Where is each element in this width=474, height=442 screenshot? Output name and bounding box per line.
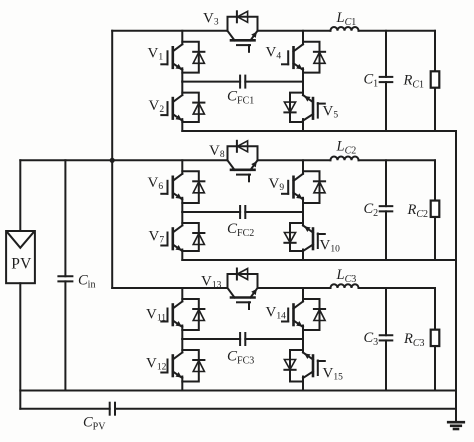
label V3 [203,11,219,28]
label V8 [209,143,225,160]
wire: cell 2 top rail middle segment [258,159,331,161]
IGBT V14 with antiparallel diode [282,288,325,339]
wire: cell 1 top rail right segment [359,30,436,32]
label V15 [323,366,344,383]
IGBT V5 with antiparallel diode (mirrored) [284,82,324,131]
label V14 [266,305,287,322]
inductor L_C3 [331,267,359,288]
label V2 [149,98,165,115]
node: junction dot on left bus at PV rail [110,158,115,163]
IGBT V11 with antiparallel diode [161,288,204,339]
inductor L_C2 [331,139,359,161]
label V13 [201,274,222,291]
wire: right output bus vertical [455,131,457,409]
label V10 [320,238,341,255]
IGBT V2 with antiparallel diode [161,82,204,131]
label V4 [266,45,282,62]
capacitor C_PV [83,403,115,433]
IGBT V9 with antiparallel diode [282,160,325,212]
IGBT V6 with antiparallel diode [161,160,204,212]
label V12 [146,356,167,373]
wire: left DC bus vertical [111,31,113,288]
label V6 [148,175,164,192]
IGBT V12 with antiparallel diode [161,339,204,391]
wire: cell 1 top rail middle segment [258,30,331,32]
IGBT V13 with antiparallel diode (horizontal, in top rail) [228,269,258,310]
IGBT V4 with antiparallel diode [282,31,325,82]
wire: cell 3 top rail right segment [359,287,436,289]
label V7 [149,229,165,246]
wire: cell 2 top rail left segment [20,159,227,161]
wire: PV negative lead [19,283,21,409]
wire: cell 2 mid rail right [245,211,303,213]
capacitor C1 [364,31,393,131]
IGBT V8 with antiparallel diode (horizontal, in top rail) [228,141,258,182]
resistor R_C3 [403,288,439,391]
wire: cell 3 top rail middle segment [258,287,331,289]
capacitor C3 [364,288,393,391]
wire: bottom rail left of C_PV [20,408,109,410]
wire: cell 2 bottom rail [182,259,456,261]
IGBT V10 with antiparallel diode (mirrored) [284,212,324,260]
PV panel (photovoltaic source) [6,231,35,283]
wire: cell 1 mid rail right [245,81,303,83]
ground symbol [448,409,464,429]
resistor R_C1 [403,31,440,131]
wire: cell 1 mid rail left [182,81,240,83]
label V11 [146,307,166,324]
wire: cell 2 top rail right segment [359,159,436,161]
IGBT V15 with antiparallel diode (mirrored) [284,339,324,391]
wire: cell 3 mid rail left [182,338,240,340]
svg-text:PV: PV [11,256,32,273]
resistor R_C2 [407,160,440,260]
IGBT V3 with antiparallel diode (horizontal, in top rail) [228,11,258,52]
capacitor C_FC2 (flying capacitor) [227,206,254,239]
IGBT V7 with antiparallel diode [161,212,204,260]
wire: PV positive lead [19,160,21,231]
label V5 [323,104,339,121]
capacitor C_in [58,160,95,390]
capacitor C_FC1 (flying capacitor) [227,76,254,107]
label V1 [148,46,164,63]
wire: cell 1 bottom rail [182,130,456,132]
inductor L_C1 [331,10,359,31]
capacitor C2 [364,160,393,260]
wire: cell 3 mid rail right [245,338,303,340]
wire: cell 3 bottom rail [20,390,456,392]
wire: bottom rail right of C_PV [115,408,456,410]
wire: cell 1 top rail left segment [112,30,227,32]
label V9 [269,176,285,193]
IGBT V1 with antiparallel diode [161,31,204,82]
wire: cell 3 top rail left segment [112,287,227,289]
capacitor C_FC3 (flying capacitor) [227,333,254,367]
wire: cell 2 mid rail left [182,211,240,213]
